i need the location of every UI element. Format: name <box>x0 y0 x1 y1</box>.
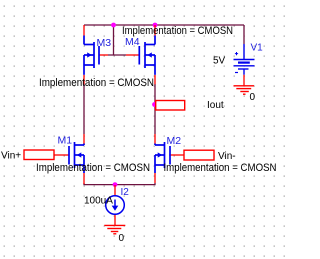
junction node Iout tap <box>152 102 157 107</box>
transistor M3 (CMOSN, mirrored, gate on right) <box>84 36 99 75</box>
transistor M1 bulk arrow <box>77 152 82 157</box>
svg-text:M4: M4 <box>125 36 140 48</box>
svg-text:Vin-: Vin- <box>218 151 236 162</box>
pin M3 drain (red outer) <box>83 25 85 36</box>
svg-text:M2: M2 <box>167 135 182 147</box>
transistor M3 bulk arrow <box>87 52 92 57</box>
pin M4 gate (red) <box>126 54 139 56</box>
wire VDD rail from M3 drain to V1 plus <box>84 24 244 26</box>
wire M4 source down through Iout node to M2 drain <box>154 84 156 134</box>
svg-text:M1: M1 <box>58 135 73 147</box>
port Iout <box>156 101 185 111</box>
svg-text:V1: V1 <box>251 43 264 54</box>
transistor M4 bulk arrow <box>147 52 152 57</box>
junction node on rail at M4 drain <box>153 23 158 28</box>
pin I2 top (red) <box>114 185 116 196</box>
svg-text:Implementation = CMOSN: Implementation = CMOSN <box>39 77 154 89</box>
svg-text:100uA: 100uA <box>84 195 113 206</box>
pin M4 drain (red outer) <box>154 25 156 36</box>
svg-text:Implementation = CMOSN: Implementation = CMOSN <box>122 25 233 37</box>
pin M1 source (red outer) <box>83 173 85 184</box>
pin M2 source (red outer) <box>154 173 156 183</box>
pin M1 drain (red outer) <box>83 134 85 144</box>
current source I2 <box>106 196 125 215</box>
pin V1 minus to ground (red) <box>243 75 245 86</box>
I2 arrow head <box>112 206 119 211</box>
wire tail node M1 source to M2 source <box>84 183 155 185</box>
transistor M4 (CMOSN, gate on left) <box>139 36 155 75</box>
ground 0 under I2 <box>104 225 125 233</box>
svg-text:5V: 5V <box>213 56 226 67</box>
V1 plus mark <box>235 52 238 55</box>
pin M2 gate wire to Vin- port (red) <box>169 154 184 156</box>
wire gate tie vertical from rail to mirror gates <box>113 25 115 55</box>
V1 minus mark <box>235 72 238 74</box>
port Vin- <box>184 150 214 160</box>
svg-text:Vin+: Vin+ <box>1 150 21 161</box>
pin I2 bottom (red) <box>114 214 116 226</box>
junction node tail to I2 <box>113 182 118 187</box>
ground 0 under V1 <box>234 86 255 94</box>
pin M4 source (red outer) <box>154 75 156 85</box>
svg-text:Implementation = CMOSN: Implementation = CMOSN <box>164 162 277 174</box>
pin M3 source (red outer) <box>83 75 85 85</box>
svg-text:I2: I2 <box>121 187 130 198</box>
svg-text:M3: M3 <box>97 37 112 49</box>
port Vin+ <box>24 150 54 160</box>
pin M2 drain (red outer) <box>154 134 156 144</box>
pin M1 gate wire from Vin+ port (red) <box>54 154 69 156</box>
wire gate bus between M3 and M4 gates <box>108 54 126 56</box>
wire V1 top vertical <box>243 25 245 44</box>
voltage source V1 battery <box>234 44 255 75</box>
pin M3 gate (red) <box>99 54 108 56</box>
wire M3 source down to M1 drain <box>83 84 85 134</box>
junction node on rail at gate tie <box>111 23 116 28</box>
transistor M1 (CMOSN, gate on left) <box>69 142 84 173</box>
svg-text:0: 0 <box>119 233 125 244</box>
svg-text:0: 0 <box>250 92 256 103</box>
transistor M2 bulk arrow <box>158 152 163 157</box>
svg-text:Implementation = CMOSN: Implementation = CMOSN <box>36 162 150 174</box>
transistor M2 (CMOSN, mirrored, gate on right) <box>155 142 170 173</box>
svg-text:Iout: Iout <box>207 100 224 111</box>
